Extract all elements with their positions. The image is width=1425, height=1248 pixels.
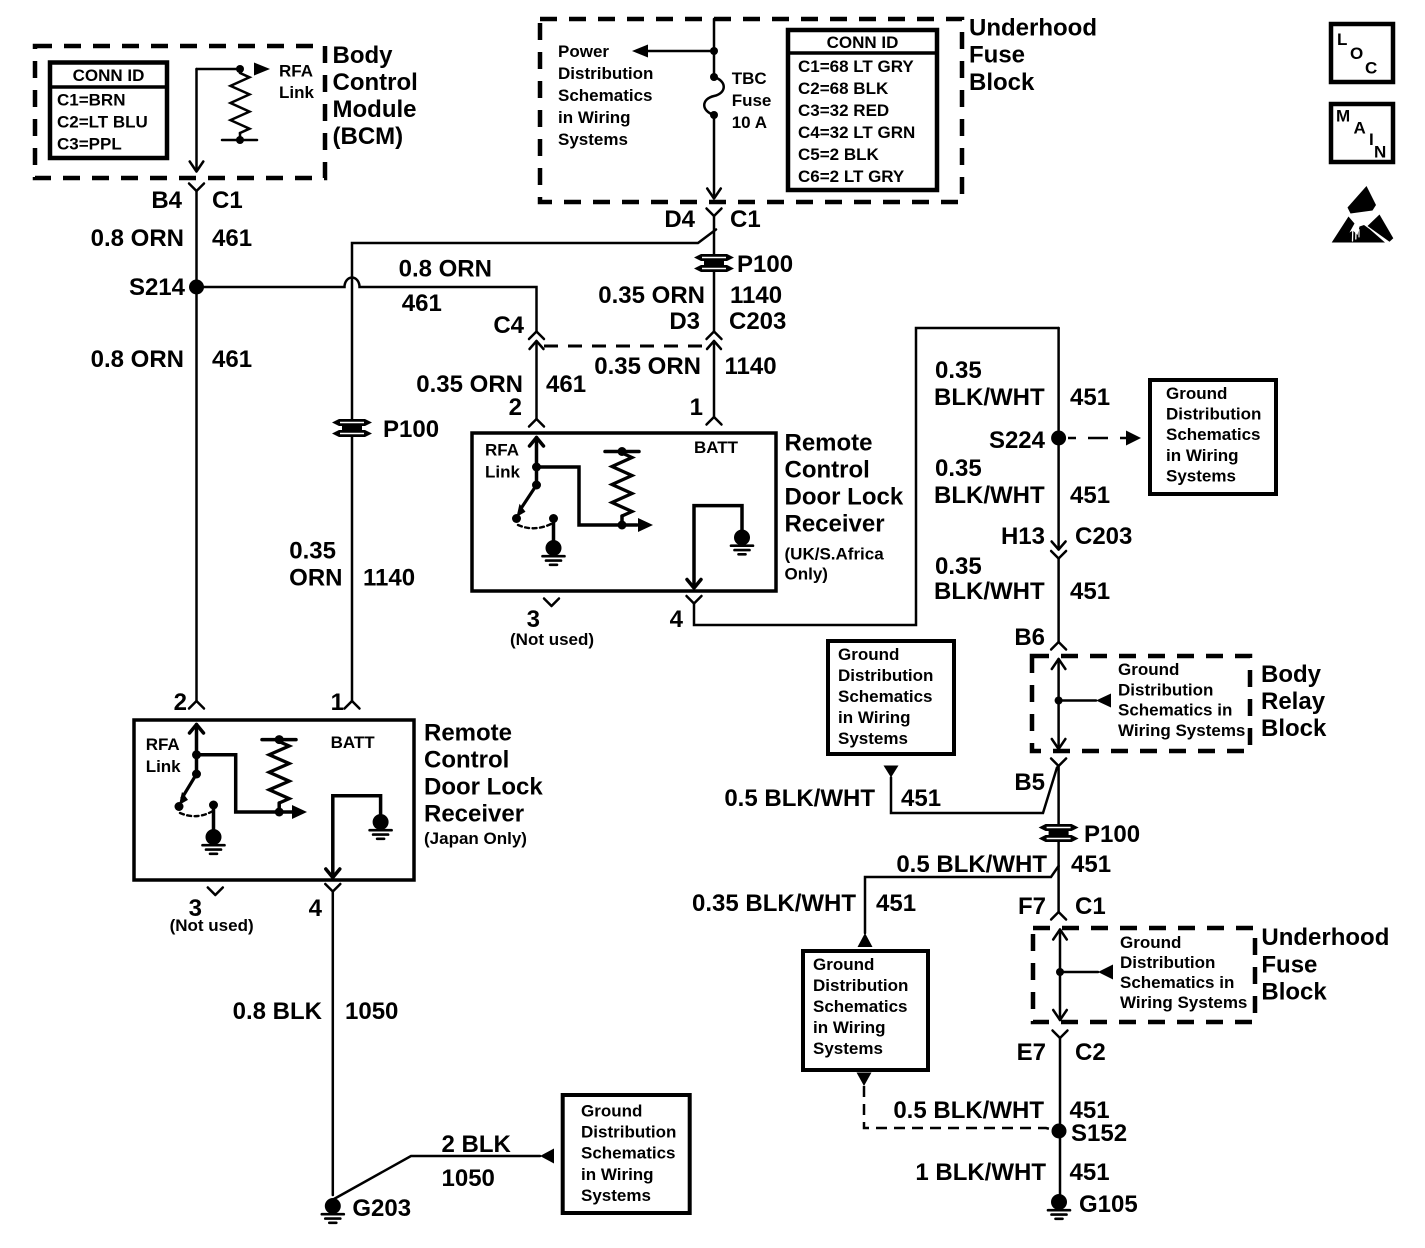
- svg-text:BLK/WHT: BLK/WHT: [934, 384, 1045, 411]
- svg-text:CONN ID: CONN ID: [73, 66, 145, 85]
- svg-text:Systems: Systems: [558, 130, 628, 149]
- svg-text:Underhood: Underhood: [1261, 924, 1389, 951]
- svg-text:C3=32 RED: C3=32 RED: [798, 101, 889, 120]
- svg-text:461: 461: [212, 346, 252, 373]
- svg-text:B6: B6: [1014, 624, 1045, 651]
- svg-text:2 BLK: 2 BLK: [442, 1131, 512, 1158]
- svg-text:Underhood: Underhood: [969, 15, 1097, 42]
- svg-text:Link: Link: [485, 463, 520, 482]
- svg-text:Distribution: Distribution: [581, 1123, 676, 1142]
- svg-text:(BCM): (BCM): [333, 123, 404, 150]
- svg-text:Distribution: Distribution: [1118, 680, 1213, 699]
- svg-text:0.35: 0.35: [935, 553, 982, 580]
- svg-text:CONN ID: CONN ID: [827, 33, 899, 52]
- svg-text:Systems: Systems: [581, 1186, 651, 1205]
- svg-text:L: L: [1337, 30, 1347, 49]
- svg-text:Remote: Remote: [785, 430, 873, 457]
- svg-text:Ground: Ground: [1118, 660, 1179, 679]
- svg-text:P100: P100: [737, 251, 793, 278]
- svg-text:A: A: [1354, 119, 1366, 138]
- svg-text:Receiver: Receiver: [424, 801, 524, 828]
- svg-text:H13: H13: [1001, 523, 1045, 550]
- svg-text:P100: P100: [383, 416, 439, 443]
- svg-text:0.5 BLK/WHT: 0.5 BLK/WHT: [896, 851, 1047, 878]
- svg-text:S214: S214: [129, 274, 186, 301]
- svg-text:C6=2 LT GRY: C6=2 LT GRY: [798, 167, 905, 186]
- svg-text:0.8 BLK: 0.8 BLK: [233, 998, 323, 1025]
- svg-text:(UK/S.Africa: (UK/S.Africa: [785, 545, 885, 564]
- svg-text:B4: B4: [151, 187, 182, 214]
- svg-text:M: M: [1336, 107, 1350, 126]
- svg-text:ORN: ORN: [289, 565, 342, 592]
- svg-text:C1: C1: [730, 206, 761, 233]
- svg-text:S224: S224: [989, 427, 1046, 454]
- svg-text:0.5 BLK/WHT: 0.5 BLK/WHT: [724, 785, 875, 812]
- svg-text:(Not used): (Not used): [170, 916, 254, 935]
- svg-text:Block: Block: [969, 69, 1035, 96]
- svg-text:Schematics: Schematics: [1166, 425, 1261, 444]
- svg-text:C1=68 LT GRY: C1=68 LT GRY: [798, 57, 914, 76]
- svg-text:C2: C2: [1075, 1039, 1106, 1066]
- svg-text:Ground: Ground: [838, 645, 899, 664]
- svg-text:Power: Power: [558, 42, 609, 61]
- svg-text:G105: G105: [1079, 1191, 1138, 1218]
- svg-text:G203: G203: [352, 1195, 411, 1222]
- svg-text:(Japan Only): (Japan Only): [424, 829, 527, 848]
- svg-text:C1: C1: [1075, 893, 1106, 920]
- svg-text:Schematics: Schematics: [813, 997, 908, 1016]
- svg-text:Control: Control: [333, 69, 418, 96]
- svg-text:S152: S152: [1071, 1120, 1127, 1147]
- svg-text:0.35 ORN: 0.35 ORN: [598, 282, 705, 309]
- svg-text:Ground: Ground: [1120, 933, 1181, 952]
- svg-text:Distribution: Distribution: [1166, 405, 1261, 424]
- svg-text:(Not used): (Not used): [510, 630, 594, 649]
- svg-text:Body: Body: [333, 42, 394, 69]
- svg-text:C203: C203: [1075, 523, 1132, 550]
- svg-text:in Wiring: in Wiring: [813, 1018, 886, 1037]
- svg-text:C5=2 BLK: C5=2 BLK: [798, 145, 879, 164]
- svg-text:E7: E7: [1017, 1039, 1046, 1066]
- svg-text:Ground: Ground: [813, 955, 874, 974]
- svg-text:C203: C203: [729, 308, 786, 335]
- svg-text:Relay: Relay: [1261, 688, 1326, 715]
- svg-text:Door Lock: Door Lock: [785, 484, 904, 511]
- svg-text:N: N: [1374, 143, 1386, 162]
- svg-text:D4: D4: [664, 206, 695, 233]
- svg-text:Only): Only): [785, 565, 828, 584]
- svg-text:Systems: Systems: [838, 729, 908, 748]
- svg-text:Control: Control: [785, 457, 870, 484]
- svg-text:451: 451: [901, 785, 941, 812]
- svg-text:Receiver: Receiver: [785, 511, 885, 538]
- svg-text:451: 451: [1070, 578, 1110, 605]
- svg-text:0.8 ORN: 0.8 ORN: [91, 346, 184, 373]
- svg-text:Ground: Ground: [581, 1102, 642, 1121]
- svg-text:1140: 1140: [363, 565, 415, 592]
- svg-text:Remote: Remote: [424, 720, 512, 747]
- svg-text:0.35: 0.35: [289, 538, 336, 565]
- svg-text:Control: Control: [424, 747, 509, 774]
- svg-text:Fuse: Fuse: [969, 42, 1025, 69]
- svg-text:1140: 1140: [725, 353, 777, 380]
- svg-text:4: 4: [309, 895, 323, 922]
- svg-text:1: 1: [690, 394, 703, 421]
- svg-text:451: 451: [1070, 384, 1110, 411]
- svg-text:BLK/WHT: BLK/WHT: [934, 578, 1045, 605]
- svg-text:RFA: RFA: [279, 62, 313, 81]
- svg-text:Module: Module: [333, 96, 417, 123]
- svg-text:C1=BRN: C1=BRN: [57, 91, 126, 110]
- svg-text:in Wiring: in Wiring: [558, 108, 631, 127]
- svg-text:Wiring Systems: Wiring Systems: [1120, 993, 1247, 1012]
- svg-text:0.35 ORN: 0.35 ORN: [416, 371, 523, 398]
- svg-text:C1: C1: [212, 187, 243, 214]
- svg-text:1 BLK/WHT: 1 BLK/WHT: [915, 1159, 1046, 1186]
- svg-text:451: 451: [1070, 482, 1110, 509]
- svg-text:Distribution: Distribution: [558, 64, 653, 83]
- svg-text:BATT: BATT: [694, 438, 739, 457]
- svg-text:Schematics: Schematics: [558, 86, 653, 105]
- svg-text:RFA: RFA: [485, 441, 519, 460]
- svg-text:461: 461: [402, 290, 442, 317]
- svg-text:TBC: TBC: [732, 69, 767, 88]
- svg-text:Fuse: Fuse: [1261, 951, 1317, 978]
- svg-text:Block: Block: [1261, 715, 1327, 742]
- svg-text:1: 1: [331, 689, 344, 716]
- svg-text:451: 451: [1071, 851, 1111, 878]
- svg-text:Block: Block: [1261, 979, 1327, 1006]
- svg-text:1050: 1050: [345, 998, 398, 1025]
- svg-text:Systems: Systems: [813, 1039, 883, 1058]
- svg-text:Schematics in: Schematics in: [1118, 701, 1232, 720]
- svg-text:C4: C4: [493, 312, 524, 339]
- svg-text:B5: B5: [1014, 769, 1045, 796]
- svg-text:RFA: RFA: [146, 735, 180, 754]
- svg-text:0.8 ORN: 0.8 ORN: [399, 256, 492, 283]
- svg-text:Systems: Systems: [1166, 466, 1236, 485]
- svg-text:Distribution: Distribution: [813, 976, 908, 995]
- svg-text:2: 2: [509, 394, 522, 421]
- svg-text:0.35: 0.35: [935, 455, 982, 482]
- svg-text:Ground: Ground: [1166, 384, 1227, 403]
- svg-text:C: C: [1365, 59, 1377, 78]
- svg-text:C4=32 LT GRN: C4=32 LT GRN: [798, 123, 915, 142]
- svg-text:P100: P100: [1084, 821, 1140, 848]
- svg-text:in Wiring: in Wiring: [581, 1165, 654, 1184]
- svg-text:451: 451: [876, 890, 916, 917]
- svg-text:BATT: BATT: [331, 733, 376, 752]
- svg-text:Wiring Systems: Wiring Systems: [1118, 721, 1245, 740]
- svg-text:2: 2: [174, 689, 187, 716]
- svg-text:Link: Link: [279, 83, 314, 102]
- svg-text:0.8 ORN: 0.8 ORN: [91, 225, 184, 252]
- svg-text:0.35 ORN: 0.35 ORN: [594, 353, 701, 380]
- svg-text:F7: F7: [1018, 893, 1046, 920]
- svg-text:in Wiring: in Wiring: [838, 708, 911, 727]
- svg-text:C2=68 BLK: C2=68 BLK: [798, 79, 889, 98]
- svg-text:10 A: 10 A: [732, 113, 767, 132]
- svg-text:1140: 1140: [730, 282, 782, 309]
- svg-text:Link: Link: [146, 757, 181, 776]
- svg-text:Schematics in: Schematics in: [1120, 973, 1234, 992]
- svg-text:C2=LT BLU: C2=LT BLU: [57, 113, 148, 132]
- svg-text:D3: D3: [669, 308, 700, 335]
- svg-text:461: 461: [546, 371, 586, 398]
- svg-text:C3=PPL: C3=PPL: [57, 135, 122, 154]
- svg-text:1050: 1050: [442, 1165, 495, 1192]
- svg-text:0.35 BLK/WHT: 0.35 BLK/WHT: [692, 890, 856, 917]
- svg-text:BLK/WHT: BLK/WHT: [934, 482, 1045, 509]
- svg-text:4: 4: [670, 606, 684, 633]
- svg-text:Body: Body: [1261, 661, 1322, 688]
- svg-text:Door Lock: Door Lock: [424, 774, 543, 801]
- svg-text:451: 451: [1070, 1159, 1110, 1186]
- svg-text:3: 3: [527, 606, 540, 633]
- svg-text:Schematics: Schematics: [581, 1144, 676, 1163]
- svg-text:0.5 BLK/WHT: 0.5 BLK/WHT: [893, 1097, 1044, 1124]
- svg-text:in Wiring: in Wiring: [1166, 446, 1239, 465]
- svg-text:Fuse: Fuse: [732, 91, 772, 110]
- svg-text:461: 461: [212, 225, 252, 252]
- svg-text:Distribution: Distribution: [838, 666, 933, 685]
- svg-text:O: O: [1350, 44, 1363, 63]
- svg-text:Distribution: Distribution: [1120, 953, 1215, 972]
- svg-text:0.35: 0.35: [935, 357, 982, 384]
- svg-text:Schematics: Schematics: [838, 687, 933, 706]
